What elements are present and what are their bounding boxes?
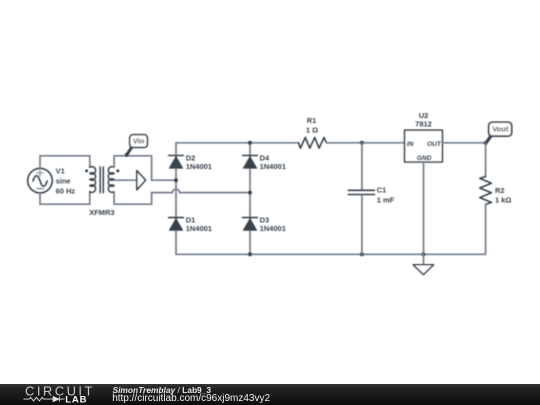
node bridge left mid [174,178,178,182]
wire secondary bottom terminal [114,192,152,205]
svg-text:LAB: LAB [65,394,87,405]
voltage source V1 [28,168,53,193]
svg-text:60 Hz: 60 Hz [56,186,76,195]
CircuitLab logo [0,384,110,405]
wire top rail [176,142,299,144]
wire U2 GND stem [423,162,425,254]
svg-text:1 mF: 1 mF [377,195,395,204]
flag Vout [484,122,512,145]
wire secondary to bridge left mid [152,179,176,181]
footer bar [0,384,540,405]
diode D3 [243,218,258,231]
diode D2 [169,156,184,169]
ground [413,254,433,274]
svg-text:OUT: OUT [427,141,442,148]
svg-text:GND: GND [417,155,432,162]
node top rail C1 [360,141,364,145]
svg-text:1 kΩ: 1 kΩ [495,195,511,204]
node top rail D4 [248,141,252,145]
flag Vin [125,135,148,157]
wire bridge right branch [249,143,251,255]
svg-text:1N4001: 1N4001 [186,162,212,171]
svg-text:IN: IN [407,141,414,148]
resistor R2 [480,143,492,255]
diode D1 [169,218,184,231]
svg-text:U2: U2 [419,111,429,120]
wire primary loop top [40,156,90,168]
wire secondary top terminal [114,156,152,180]
node bottom rail D3 [248,252,252,256]
svg-text:sine: sine [56,177,71,186]
wire top rail right of R1 [326,142,404,144]
svg-text:1 Ω: 1 Ω [306,126,318,135]
wire secondary to bridge right mid (with hop) [152,189,250,193]
svg-text:XFMR3: XFMR3 [89,208,114,217]
wire primary loop bottom [40,192,90,205]
diode D4 [243,156,258,169]
svg-text:C1: C1 [377,186,387,195]
node bottom rail GND [422,252,426,256]
svg-text:1N4001: 1N4001 [260,224,286,233]
wire V1 top lead [39,156,41,169]
svg-text:Vout: Vout [492,125,509,134]
wire bridge left branch [175,143,177,255]
capacitor C1 [348,143,374,255]
wire V1 bottom lead [39,193,41,204]
svg-text:Vin: Vin [133,136,145,145]
svg-text:1N4001: 1N4001 [186,224,212,233]
resistor R1 [299,137,327,148]
node bridge right mid [248,191,252,195]
svg-text:7812: 7812 [415,120,432,129]
wire bottom rail [176,253,486,255]
wire U2 OUT to Vout node [442,142,485,144]
svg-text:R2: R2 [495,186,505,195]
node bottom rail C1 [360,252,364,256]
transformer XFMR3 [85,167,119,193]
center tap arrow [137,171,146,190]
wire center tap [114,179,137,181]
footer author line [113,385,212,395]
regulator U2 7812 box [405,130,443,162]
footer url line [112,393,270,404]
svg-text:1N4001: 1N4001 [260,162,286,171]
svg-text:V1: V1 [56,166,65,175]
svg-text:R1: R1 [307,116,317,125]
